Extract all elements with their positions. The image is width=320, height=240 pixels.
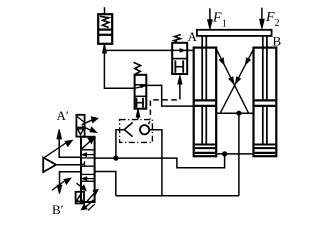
svg-text:B′: B′ xyxy=(52,202,64,217)
svg-text:F: F xyxy=(265,10,275,25)
svg-text:A: A xyxy=(188,29,198,44)
svg-text:A′: A′ xyxy=(57,108,69,123)
svg-text:2: 2 xyxy=(275,18,280,29)
svg-text:1: 1 xyxy=(222,19,227,30)
svg-text:B: B xyxy=(273,34,282,49)
svg-text:F: F xyxy=(212,11,222,26)
